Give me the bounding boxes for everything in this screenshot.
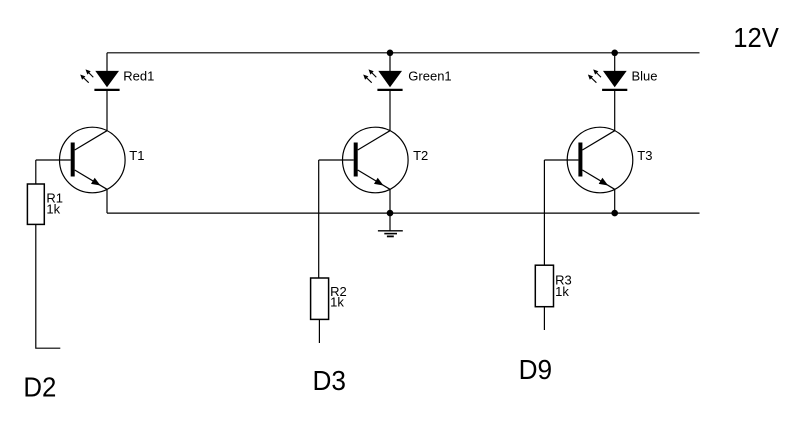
wire: T3 collector wire from LED cathode <box>614 91 616 132</box>
label: resistor designator R2 <box>330 284 347 299</box>
svg-text:1k: 1k <box>46 201 60 216</box>
node: T3 emitter to lower rail <box>611 210 618 217</box>
wire: T3 base corner down to R3 (crosses lower rail, no junction) <box>543 160 545 265</box>
wire: T1 base corner down to R1 <box>35 160 37 184</box>
svg-text:T3: T3 <box>637 148 652 163</box>
node D3: input terminal label <box>313 365 347 396</box>
wire: T2 base corner down to R2 (crosses lower rail, no junction) <box>318 160 320 278</box>
LED Green1 <box>363 69 402 90</box>
resistor R1 1k <box>27 184 44 224</box>
svg-text:1k: 1k <box>330 295 344 310</box>
wire: Green1 anode wire from +12V rail <box>389 53 391 72</box>
transistor T3 (NPN) <box>567 127 633 193</box>
label: resistor designator R3 <box>555 273 572 288</box>
node: Blue anode to +12V rail <box>611 50 618 57</box>
svg-text:T2: T2 <box>413 148 428 163</box>
svg-text:D3: D3 <box>313 365 347 396</box>
label: resistor value 1k for R2 <box>330 295 344 310</box>
label: transistor designator T3 <box>637 148 652 163</box>
wire: T1 emitter wire to lower rail <box>106 189 108 213</box>
svg-text:Green1: Green1 <box>408 68 451 83</box>
transistor T2 (NPN) <box>343 127 409 193</box>
svg-text:12V: 12V <box>733 22 779 53</box>
label: LED name Blue <box>632 68 658 83</box>
svg-text:D9: D9 <box>519 354 553 385</box>
wire: R1 bottom lead down and right to node D2 <box>36 224 61 348</box>
svg-text:Red1: Red1 <box>123 68 154 83</box>
label: 12V supply net <box>733 22 779 53</box>
svg-text:D2: D2 <box>23 371 56 402</box>
wire: R3 bottom lead stub <box>543 307 545 330</box>
label: LED name Green1 <box>408 68 451 83</box>
LED Blue <box>588 69 627 90</box>
label: resistor value 1k for R1 <box>46 201 60 216</box>
label: transistor designator T2 <box>413 148 428 163</box>
node: Green1 anode to +12V rail <box>387 50 394 57</box>
wire: +12V top supply rail <box>107 52 700 54</box>
svg-text:Blue: Blue <box>632 68 658 83</box>
wire: T1 base wire <box>36 159 71 161</box>
wire: R2 bottom lead stub <box>318 319 320 343</box>
transistor T1 (NPN) <box>60 127 126 193</box>
label: resistor designator R1 <box>46 191 63 206</box>
node D9: input terminal label <box>519 354 553 385</box>
wire: T2 emitter wire to lower rail <box>389 189 391 213</box>
svg-text:T1: T1 <box>129 148 144 163</box>
wire: T2 base wire <box>319 159 354 161</box>
wire: T1 collector wire from LED cathode <box>106 91 108 132</box>
LED Red1 <box>80 69 119 90</box>
svg-text:1k: 1k <box>555 284 569 299</box>
wire: Red1 anode wire from +12V rail <box>106 53 108 72</box>
wire: T3 base wire <box>544 159 578 161</box>
node: T2 emitter to lower rail (ground) <box>387 210 394 217</box>
node D2: input terminal label <box>23 371 56 402</box>
wire: Blue anode wire from +12V rail <box>614 53 616 72</box>
wire: lower common rail <box>107 212 700 214</box>
resistor R3 1k <box>535 265 553 307</box>
label: LED name Red1 <box>123 68 154 83</box>
wire: T2 collector wire from LED cathode <box>389 91 391 132</box>
label: resistor value 1k for R3 <box>555 284 569 299</box>
label: transistor designator T1 <box>129 148 144 163</box>
wire: T3 emitter wire to lower rail <box>614 189 616 213</box>
resistor R2 1k <box>311 278 329 319</box>
ground <box>378 213 403 236</box>
